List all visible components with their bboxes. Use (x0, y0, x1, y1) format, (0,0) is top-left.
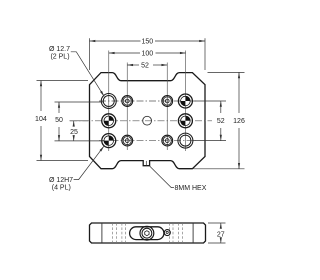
dim 100 (109, 52, 186, 54)
dim 104 left (37, 81, 89, 161)
svg-text:(2 PL): (2 PL) (50, 53, 69, 60)
dim 52 right (194, 101, 227, 141)
hole col2 bottom small (122, 135, 133, 146)
side view chamfer line left (101, 223, 103, 243)
svg-text:126: 126 (233, 118, 245, 125)
svg-text:27: 27 (217, 232, 225, 239)
hole L-top plain (101, 94, 116, 109)
plate outline (top view) (90, 73, 206, 169)
svg-text:104: 104 (35, 116, 47, 123)
hole L-mid quadrant (102, 114, 116, 128)
hole R-top quadrant (178, 94, 192, 108)
leader 8mm hex (150, 166, 174, 187)
svg-text:25: 25 (70, 129, 78, 136)
hole L-bot quadrant (102, 134, 116, 148)
hole col3 top small (162, 96, 173, 107)
boss circles (140, 226, 154, 240)
hole R-mid quadrant (178, 114, 192, 128)
small screw circle (164, 230, 170, 236)
svg-text:50: 50 (55, 117, 63, 124)
hole R-bot plain (178, 133, 193, 148)
dim 52 top (127, 64, 167, 66)
leader 12.7 (71, 52, 104, 97)
svg-text:(4 PL): (4 PL) (52, 184, 71, 191)
centerline col1 (108, 51, 110, 152)
side view body (90, 223, 206, 243)
center pilot circle (143, 116, 152, 125)
svg-text:Ø 12.7: Ø 12.7 (49, 46, 70, 53)
centerline col3 (166, 63, 168, 151)
dim 50 left (55, 102, 104, 141)
centerline bottom row (99, 140, 196, 142)
centerline col4 (184, 51, 186, 152)
dim 126 right (194, 72, 245, 168)
svg-text:150: 150 (141, 39, 153, 46)
svg-text:100: 100 (141, 51, 153, 58)
centerline middle row (70, 120, 212, 122)
hole col3 bottom small (162, 135, 173, 146)
hidden lines left (112, 223, 125, 243)
svg-text:Ø 12H7: Ø 12H7 (49, 177, 73, 184)
dim 150 (90, 38, 206, 70)
side view chamfer line right (192, 223, 194, 243)
obround boss (130, 227, 164, 240)
centerline top row (99, 100, 196, 102)
svg-text:52: 52 (217, 118, 225, 125)
hole col2 top small (122, 96, 133, 107)
hex tab flat line (145, 161, 147, 166)
leader 12H7 (74, 146, 104, 179)
dim 25 left (55, 121, 104, 141)
dim 27 (208, 223, 226, 243)
svg-text:52: 52 (141, 63, 149, 70)
svg-text:8MM HEX: 8MM HEX (175, 185, 207, 192)
hidden lines right (170, 223, 183, 243)
centerline col2 (126, 63, 128, 151)
